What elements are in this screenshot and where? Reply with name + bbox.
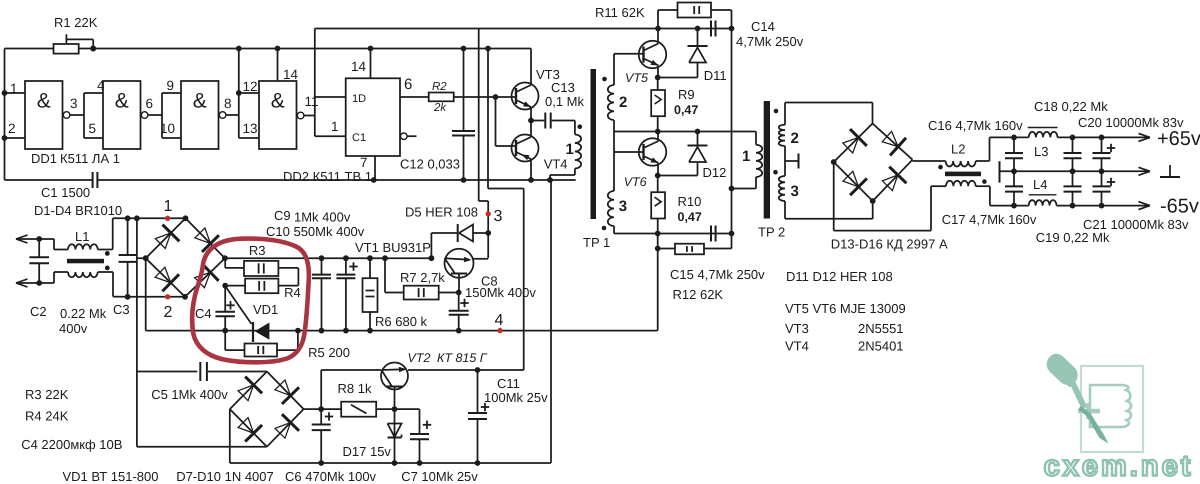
label D1-D4 <box>34 203 122 218</box>
capacitor C21 <box>1083 171 1189 232</box>
wire to bridge bottom <box>137 446 267 448</box>
svg-text:C6 470Mk 100v: C6 470Mk 100v <box>285 469 377 484</box>
svg-text:TP 2: TP 2 <box>758 225 785 240</box>
svg-text:C7 10Mk 25v: C7 10Mk 25v <box>401 469 478 484</box>
wire from node 4 rail via x488 <box>485 46 524 370</box>
svg-text:7: 7 <box>360 155 368 170</box>
svg-text:L4: L4 <box>1033 177 1047 192</box>
transistor VT3 <box>496 49 560 147</box>
capacitor C15 <box>614 226 765 283</box>
inductor L4 <box>1029 177 1057 206</box>
svg-text:100Mk 25v: 100Mk 25v <box>484 390 548 405</box>
resistor R1 <box>5 15 239 54</box>
capacitor C14 <box>695 19 804 49</box>
svg-text:R4 24K: R4 24K <box>25 409 69 424</box>
svg-text:150Mk 400v: 150Mk 400v <box>465 285 536 300</box>
svg-text:1: 1 <box>164 198 173 215</box>
svg-text:+65v: +65v <box>1157 128 1200 150</box>
svg-text:-65v: -65v <box>1160 196 1199 218</box>
svg-text:R3 22K: R3 22K <box>25 387 69 402</box>
svg-text:1D: 1D <box>352 93 366 105</box>
capacitor C19 <box>1036 171 1110 245</box>
capacitor C7 <box>395 409 479 484</box>
svg-text:14: 14 <box>351 59 367 74</box>
svg-text:D1-D4 BR1010: D1-D4 BR1010 <box>34 203 122 218</box>
svg-text:D7-D10 1N 4007: D7-D10 1N 4007 <box>176 469 274 484</box>
rectifier bridge D1-D4 <box>143 215 228 299</box>
choke L1 <box>39 229 110 283</box>
resistor R11 <box>595 3 732 29</box>
svg-text:C13: C13 <box>551 80 575 95</box>
svg-text:2: 2 <box>8 121 16 136</box>
svg-text:R2: R2 <box>432 81 447 93</box>
svg-text:TP 1: TP 1 <box>583 235 610 250</box>
svg-text:R3: R3 <box>249 243 266 258</box>
flip-flop DD2 <box>283 46 417 184</box>
wire bridge left to rail <box>229 409 231 463</box>
svg-text:C14: C14 <box>751 19 775 34</box>
svg-text:VD1 ВТ 151-800: VD1 ВТ 151-800 <box>63 469 159 484</box>
svg-text:C4: C4 <box>195 306 212 321</box>
svg-text:R4: R4 <box>284 285 301 300</box>
svg-text:R11 62K: R11 62K <box>595 5 645 20</box>
wire left vertical <box>2 49 8 181</box>
label parts list <box>785 269 906 354</box>
transistor VT6 <box>614 132 666 190</box>
wire half-bridge midpoint <box>614 131 756 133</box>
gate DD1.4 <box>236 46 319 149</box>
svg-text:0,47: 0,47 <box>678 210 702 224</box>
capacitor C20 <box>1078 115 1184 174</box>
svg-text:R8 1k: R8 1k <box>338 381 372 396</box>
svg-text:C18 0,22 Mk: C18 0,22 Mk <box>1034 99 1108 114</box>
wire L1 to node 2 <box>98 272 128 297</box>
svg-text:cxem.net: cxem.net <box>1044 451 1194 483</box>
watermark logo <box>1044 354 1194 483</box>
svg-text:C11: C11 <box>497 376 520 391</box>
AC input arrows <box>16 235 39 287</box>
transistor VT2 <box>381 351 488 466</box>
svg-text:L2: L2 <box>951 142 965 157</box>
svg-text:D11 D12 HER 108: D11 D12 HER 108 <box>786 269 893 284</box>
wire -rail <box>976 186 1150 209</box>
svg-text:VT5: VT5 <box>625 71 648 85</box>
svg-text:C10 550Mk 400v: C10 550Mk 400v <box>266 224 365 239</box>
label values left <box>21 387 158 484</box>
label +65v <box>1157 128 1200 150</box>
svg-text:2N5401: 2N5401 <box>858 339 904 354</box>
svg-text:DD2 К511 ТВ 1: DD2 К511 ТВ 1 <box>283 169 372 184</box>
svg-text:VT5 VT6 MJE 13009: VT5 VT6 MJE 13009 <box>785 301 906 316</box>
node 4 <box>495 312 504 333</box>
gate DD1.3 <box>160 78 239 149</box>
svg-text:L3: L3 <box>1034 144 1048 159</box>
resistor R6 <box>363 255 428 333</box>
svg-text:C12 0,033: C12 0,033 <box>400 157 460 172</box>
svg-text:1: 1 <box>10 81 18 96</box>
wire bridge right to R8 <box>304 406 325 412</box>
wire bridge left to L2 bottom <box>834 162 931 231</box>
ground symbol <box>1160 165 1180 177</box>
svg-text:8: 8 <box>224 96 232 111</box>
svg-text:2k: 2k <box>433 102 447 114</box>
svg-text:5: 5 <box>89 121 97 136</box>
transistor VT1 <box>355 240 488 293</box>
diode D5 <box>405 205 488 259</box>
svg-text:2: 2 <box>619 94 627 111</box>
wire VT2 collector bus <box>321 367 524 373</box>
wire top bus y258 <box>225 255 434 261</box>
resistor R2 <box>400 81 498 114</box>
svg-text:C21 10000Mk 83v: C21 10000Mk 83v <box>1083 217 1189 232</box>
transformer TP1 winding 3 <box>602 120 627 234</box>
svg-text:1Mk 400v: 1Mk 400v <box>294 210 351 225</box>
svg-text:VT1 BU931P: VT1 BU931P <box>355 240 431 255</box>
wire node1 to C5 <box>134 215 140 446</box>
wire node 3 vertical <box>479 29 491 259</box>
svg-text:КТ 815 Г: КТ 815 Г <box>437 351 488 365</box>
svg-text:1: 1 <box>566 141 574 158</box>
svg-text:VD1: VD1 <box>253 302 278 317</box>
capacitor C8 <box>449 274 537 334</box>
svg-text:C19 0,22 Mk: C19 0,22 Mk <box>1036 230 1110 245</box>
resistor R12 <box>655 234 732 331</box>
svg-text:C4 2200мкф 10В: C4 2200мкф 10В <box>21 437 122 452</box>
gate DD1.1 <box>5 81 85 149</box>
svg-text:1: 1 <box>742 148 750 165</box>
svg-text:&: & <box>193 90 207 113</box>
svg-text:2: 2 <box>791 130 799 147</box>
svg-text:VT4: VT4 <box>544 157 568 172</box>
svg-text:VT2: VT2 <box>408 351 431 365</box>
svg-text:R10: R10 <box>678 194 702 209</box>
wire rail y330 <box>146 330 658 332</box>
svg-text:VT3: VT3 <box>785 321 809 336</box>
resistor R4 <box>225 268 301 300</box>
svg-text:10: 10 <box>160 121 175 136</box>
svg-text:R7 2,7k: R7 2,7k <box>400 270 445 285</box>
resistor R3 <box>225 243 298 276</box>
transformer TP2 winding 1 <box>732 132 763 189</box>
svg-text:D12: D12 <box>703 165 727 180</box>
capacitor C11 <box>468 370 548 466</box>
svg-text:C5 1Mk 400v: C5 1Mk 400v <box>151 387 228 402</box>
wire C14 to TP2 <box>729 29 735 234</box>
wire top rail to VT3 <box>239 48 531 50</box>
svg-text:D5 HER 108: D5 HER 108 <box>405 205 478 220</box>
resistor R10 <box>651 176 702 237</box>
node 3 <box>486 208 503 225</box>
capacitor C5 <box>137 362 267 402</box>
transformer TP1 winding 2 <box>602 54 643 120</box>
svg-text:6: 6 <box>404 76 412 93</box>
capacitor C3 <box>113 215 137 317</box>
capacitor C2 <box>29 236 106 336</box>
svg-text:0,47: 0,47 <box>674 103 698 117</box>
svg-text:VT4: VT4 <box>785 339 809 354</box>
capacitor C16 <box>928 118 1023 174</box>
inductor L2 <box>913 142 987 187</box>
svg-text:3: 3 <box>619 198 627 215</box>
label DD1 <box>31 151 120 166</box>
node 2 <box>128 294 185 321</box>
svg-text:C3: C3 <box>113 302 130 317</box>
wire feedback top <box>315 29 732 137</box>
red marker circle <box>192 239 309 363</box>
svg-text:DD1: DD1 <box>31 151 57 166</box>
diode D11 <box>658 29 727 84</box>
svg-text:12: 12 <box>243 79 258 94</box>
svg-text:1: 1 <box>331 119 339 134</box>
svg-text:L1: L1 <box>75 229 89 244</box>
capacitor C18 <box>1034 99 1108 174</box>
transformer TP1 winding 1 <box>547 121 582 183</box>
svg-text:R12 62K: R12 62K <box>673 287 724 302</box>
svg-text:&: & <box>115 90 129 113</box>
svg-text:C16 4,7Mk 160v: C16 4,7Mk 160v <box>928 118 1023 133</box>
label -65v <box>1160 196 1199 218</box>
svg-text:2N5551: 2N5551 <box>858 321 904 336</box>
diode D12 <box>658 129 727 180</box>
svg-text:3: 3 <box>70 96 78 111</box>
wire bridge left down <box>137 258 146 330</box>
resistor R8 <box>321 381 397 417</box>
wire L1 to bridge top <box>98 218 186 249</box>
svg-text:C1 1500: C1 1500 <box>41 185 90 200</box>
svg-text:14: 14 <box>283 67 299 82</box>
capacitor C17 <box>942 171 1037 227</box>
svg-text:3: 3 <box>791 183 799 200</box>
wire bottom rail <box>230 180 551 463</box>
thyristor VD1 <box>225 286 278 342</box>
svg-text:400v: 400v <box>59 321 88 336</box>
transistor VT4 <box>496 121 568 183</box>
ground rail primary <box>374 179 576 181</box>
transformer TP2 winding 2 <box>774 103 799 148</box>
svg-text:C2: C2 <box>30 304 47 319</box>
svg-text:0,1 Mk: 0,1 Mk <box>545 94 585 109</box>
svg-text:C9: C9 <box>274 208 291 223</box>
svg-text:0.22 Mk: 0.22 Mk <box>60 306 107 321</box>
transistor VT5 <box>625 26 666 85</box>
transformer TP1 core <box>583 69 610 250</box>
capacitor C4 <box>195 283 235 334</box>
resistor R9 <box>651 78 698 135</box>
wire mid rail <box>1000 161 1151 182</box>
svg-text:13: 13 <box>243 121 258 136</box>
capacitor C6 <box>285 370 377 484</box>
zener D17 <box>343 424 402 460</box>
rectifier bridge D7-D10 <box>176 372 303 484</box>
inductor L3 <box>1028 128 1058 160</box>
svg-text:D13-D16 КД 2997 А: D13-D16 КД 2997 А <box>831 237 948 252</box>
transformer TP2 center tap <box>785 146 799 176</box>
svg-text:&: & <box>271 90 285 113</box>
svg-text:C17 4,7Mk 160v: C17 4,7Mk 160v <box>942 212 1037 227</box>
rectifier bridge D13-D16 <box>785 103 948 252</box>
capacitor C10 <box>266 224 365 334</box>
svg-text:6: 6 <box>146 96 154 111</box>
gate DD1.2 <box>84 78 162 149</box>
svg-text:R9: R9 <box>678 87 695 102</box>
resistor R5 <box>225 328 350 360</box>
svg-text:VT6: VT6 <box>624 175 647 189</box>
svg-text:D17 15v: D17 15v <box>343 444 392 459</box>
transformer TP2 core <box>758 101 785 240</box>
transformer TP2 winding 3 <box>773 170 799 219</box>
resistor R7 <box>382 255 462 299</box>
svg-text:C1: C1 <box>352 132 366 144</box>
svg-text:4: 4 <box>495 312 504 329</box>
svg-text:R6 680 k: R6 680 k <box>375 314 428 329</box>
node 1 <box>164 198 173 221</box>
svg-text:&: & <box>37 90 51 113</box>
capacitor C9 <box>274 208 351 334</box>
svg-text:C15 4,7Mk 250v: C15 4,7Mk 250v <box>670 267 765 282</box>
svg-text:3: 3 <box>494 208 503 225</box>
svg-text:4,7Mk 250v: 4,7Mk 250v <box>736 34 804 49</box>
capacitor C1 <box>5 172 374 200</box>
svg-text:2: 2 <box>164 304 173 321</box>
wire +rail <box>976 133 1150 161</box>
capacitor C13 <box>531 80 585 129</box>
svg-text:R5 200: R5 200 <box>308 345 350 360</box>
svg-text:4: 4 <box>97 78 105 93</box>
capacitor C12 <box>400 46 475 183</box>
svg-text:К511 ЛА 1: К511 ЛА 1 <box>60 151 120 166</box>
svg-text:9: 9 <box>167 78 175 93</box>
svg-text:D11: D11 <box>704 68 727 83</box>
svg-text:R1 22K: R1 22K <box>54 15 98 30</box>
